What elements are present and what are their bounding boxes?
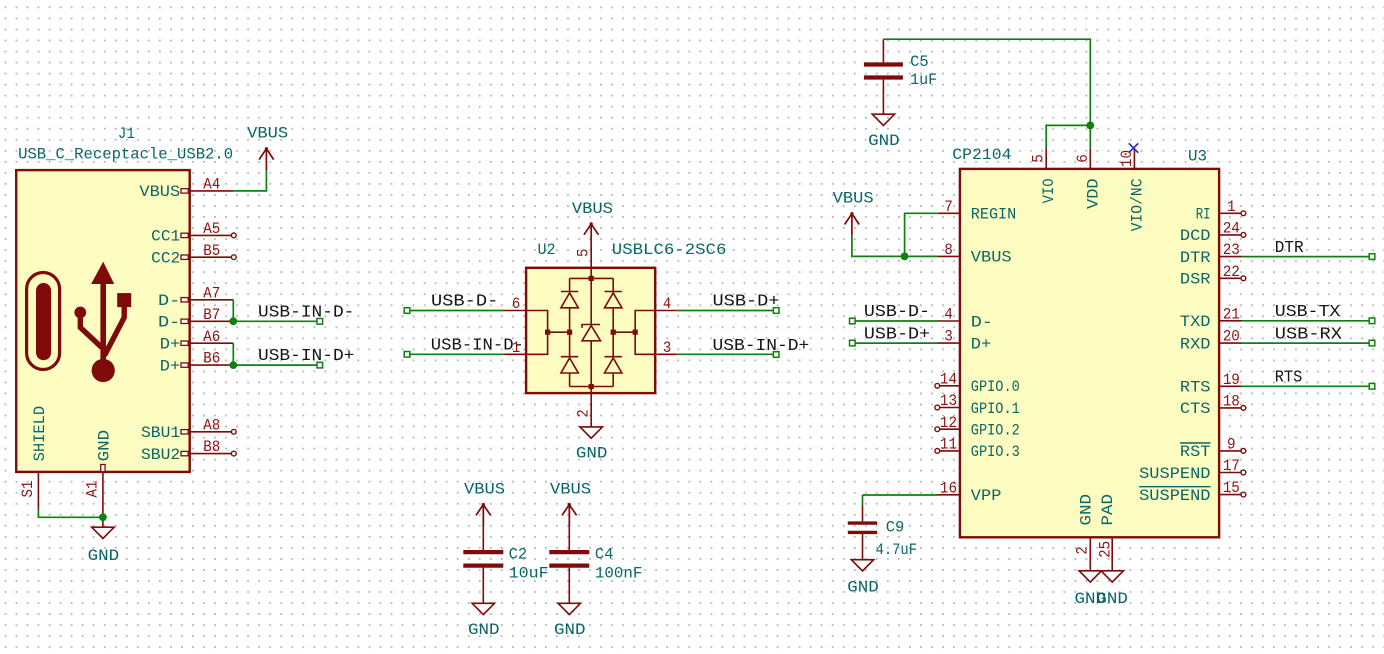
svg-text:VBUS: VBUS [464,481,505,499]
svg-text:DCD: DCD [1180,227,1211,245]
svg-text:USB-TX: USB-TX [1275,302,1341,321]
svg-text:4.7uF: 4.7uF [876,541,917,559]
svg-text:USB-D+: USB-D+ [713,292,780,311]
svg-text:USB-D+: USB-D+ [864,324,930,343]
svg-text:D+: D+ [971,335,991,353]
svg-text:C2: C2 [509,545,527,563]
svg-text:DTR: DTR [1180,249,1211,267]
svg-text:10: 10 [1118,150,1136,167]
svg-text:25: 25 [1097,541,1115,558]
svg-text:USB-IN-D+: USB-IN-D+ [713,336,810,355]
svg-text:VBUS: VBUS [971,249,1012,267]
svg-text:DTR: DTR [1275,238,1304,257]
svg-text:VIO: VIO [1040,178,1058,203]
svg-text:RST: RST [1180,443,1211,461]
svg-text:3: 3 [944,328,953,346]
svg-text:RXD: RXD [1180,335,1211,353]
svg-text:USBLC6-2SC6: USBLC6-2SC6 [612,241,727,259]
svg-text:CTS: CTS [1180,400,1211,418]
svg-text:C5: C5 [910,53,929,71]
svg-text:10uF: 10uF [509,565,549,583]
svg-text:A1: A1 [83,481,101,498]
svg-text:100nF: 100nF [595,565,643,583]
svg-text:21: 21 [1223,305,1240,323]
svg-text:8: 8 [944,241,953,259]
svg-text:VBUS: VBUS [550,481,591,499]
svg-text:B7: B7 [203,306,220,324]
svg-text:RTS: RTS [1180,379,1211,397]
svg-text:USB-IN-D-: USB-IN-D- [431,335,524,354]
svg-text:J1: J1 [118,125,135,143]
svg-text:11: 11 [940,436,957,454]
svg-text:14: 14 [940,370,957,388]
svg-text:SUSPEND: SUSPEND [1139,465,1210,483]
svg-text:GPIO.2: GPIO.2 [971,422,1020,440]
svg-text:23: 23 [1223,241,1240,259]
svg-text:1: 1 [1227,198,1236,216]
svg-text:VBUS: VBUS [247,125,288,143]
svg-text:SBU1: SBU1 [141,424,180,442]
svg-text:USB-IN-D-: USB-IN-D- [258,302,354,321]
svg-text:GND: GND [554,621,586,639]
svg-text:GND: GND [868,132,900,150]
svg-text:A6: A6 [203,328,220,346]
svg-text:19: 19 [1223,371,1240,389]
svg-text:RTS: RTS [1275,368,1303,387]
svg-text:PAD: PAD [1099,494,1117,526]
svg-text:D-: D- [158,292,180,310]
svg-text:3: 3 [663,339,671,357]
svg-text:C4: C4 [595,545,614,563]
svg-text:VIO/NC: VIO/NC [1128,178,1146,231]
svg-text:6: 6 [1074,154,1092,163]
svg-text:U2: U2 [538,241,556,259]
svg-text:VPP: VPP [971,487,1002,505]
svg-text:B8: B8 [203,438,220,456]
svg-text:2: 2 [575,409,593,417]
svg-text:U3: U3 [1188,148,1207,166]
svg-text:USB_C_Receptacle_USB2.0: USB_C_Receptacle_USB2.0 [18,146,233,164]
svg-text:2: 2 [1074,546,1092,554]
svg-text:6: 6 [512,295,520,313]
svg-text:GPIO.3: GPIO.3 [971,443,1020,461]
svg-text:RI: RI [1196,206,1211,224]
svg-text:7: 7 [944,198,953,216]
svg-text:S1: S1 [19,481,37,498]
svg-text:GND: GND [95,430,113,462]
svg-text:18: 18 [1223,393,1240,411]
svg-text:A5: A5 [203,220,220,238]
svg-text:USB-D-: USB-D- [431,292,498,311]
svg-text:13: 13 [940,392,957,410]
svg-text:CC2: CC2 [151,250,180,268]
svg-text:SBU2: SBU2 [141,446,180,464]
svg-text:B5: B5 [203,242,220,260]
svg-text:D-: D- [971,313,993,331]
svg-text:SUSPEND: SUSPEND [1139,487,1210,505]
svg-text:DSR: DSR [1180,271,1211,289]
svg-text:GND: GND [88,547,120,565]
svg-text:C9: C9 [886,519,905,537]
svg-text:VBUS: VBUS [833,190,874,208]
svg-text:TXD: TXD [1180,313,1211,331]
svg-text:20: 20 [1223,328,1240,346]
svg-text:4: 4 [663,295,671,313]
svg-text:17: 17 [1223,457,1240,475]
svg-text:D-: D- [158,314,180,332]
svg-text:USB-D-: USB-D- [864,302,930,321]
svg-text:A4: A4 [203,176,220,194]
svg-text:GND: GND [1096,590,1128,608]
svg-text:VDD: VDD [1084,178,1102,209]
svg-text:GPIO.1: GPIO.1 [971,400,1020,418]
svg-text:GND: GND [468,621,500,639]
svg-text:4: 4 [944,306,953,324]
svg-text:USB-IN-D+: USB-IN-D+ [258,346,354,365]
svg-text:5: 5 [1030,154,1048,163]
svg-text:GND: GND [1077,494,1095,526]
svg-text:CP2104: CP2104 [952,146,1011,164]
svg-text:22: 22 [1223,263,1240,281]
svg-text:9: 9 [1227,436,1236,454]
svg-text:A8: A8 [203,416,220,434]
svg-text:REGIN: REGIN [971,206,1016,224]
svg-text:SHIELD: SHIELD [31,406,49,462]
svg-text:USB-RX: USB-RX [1275,324,1342,343]
svg-text:GPIO.0: GPIO.0 [971,378,1020,396]
svg-text:24: 24 [1223,220,1240,238]
svg-text:12: 12 [940,414,957,432]
svg-text:D+: D+ [160,357,180,375]
svg-text:D+: D+ [160,336,180,354]
svg-text:1uF: 1uF [910,71,937,89]
svg-text:VBUS: VBUS [139,183,180,201]
svg-text:A7: A7 [203,284,220,302]
svg-text:GND: GND [576,444,608,462]
svg-text:16: 16 [940,479,957,497]
svg-text:VBUS: VBUS [572,200,613,218]
svg-text:B6: B6 [203,350,220,368]
svg-text:CC1: CC1 [151,228,180,246]
svg-text:GND: GND [847,579,879,597]
svg-text:15: 15 [1223,479,1240,497]
svg-text:5: 5 [575,249,593,257]
